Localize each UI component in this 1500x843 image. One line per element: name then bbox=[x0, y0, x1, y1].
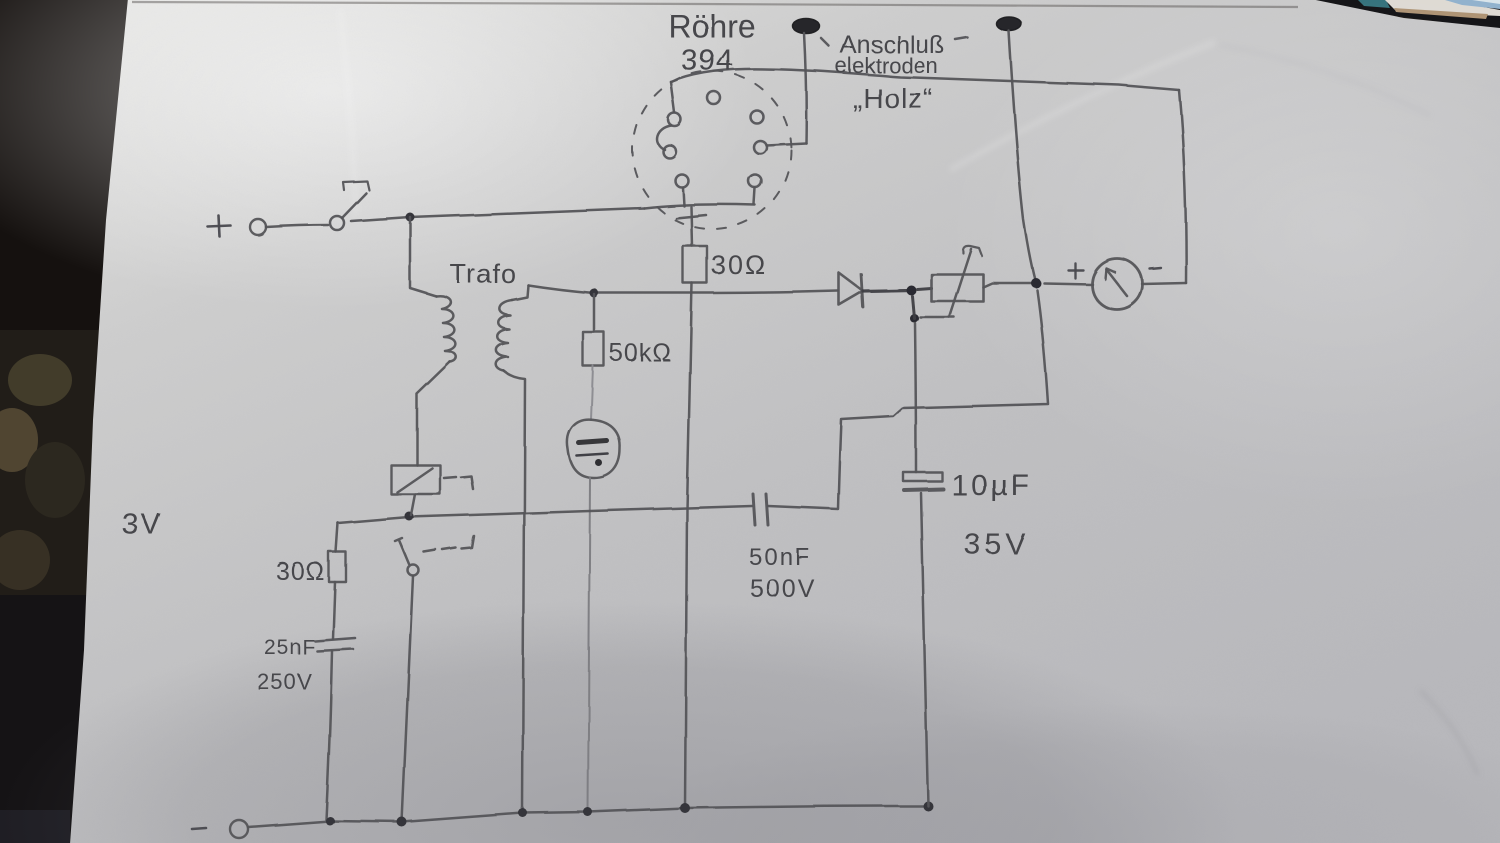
svg-text:50nF: 50nF bbox=[749, 544, 812, 571]
wire wiper tap to diagonal bbox=[920, 316, 954, 319]
resistor 30Ω left body bbox=[329, 552, 346, 582]
capacitor 50nF right plate bbox=[766, 494, 768, 525]
wire node B to 50k bbox=[593, 294, 596, 332]
wire right side down to meter bbox=[1179, 90, 1186, 283]
wire pin6 stub bbox=[683, 188, 684, 206]
tube V1 socket bus bbox=[644, 204, 755, 208]
wire 40µF to bottom bus bbox=[921, 493, 928, 806]
neon lamp envelope bbox=[567, 420, 620, 478]
wire resistor down long to bottom bus bbox=[685, 283, 692, 807]
black wedge top-right bbox=[1293, 0, 1500, 30]
wire neon to bottom bus (light) bbox=[588, 478, 590, 812]
tube V1 pin 1 bbox=[708, 92, 721, 105]
svg-text:50kΩ: 50kΩ bbox=[609, 339, 672, 367]
switch S2 contact circle bbox=[408, 565, 419, 576]
wire 50k to neon lamp (light) bbox=[591, 366, 593, 420]
node D junction dot bbox=[1031, 278, 1041, 288]
neon lamp electrode line bbox=[577, 454, 608, 456]
switch S2 dashed link bbox=[424, 536, 474, 552]
tube V1 pin 4 bbox=[669, 114, 682, 127]
svg-text:35V: 35V bbox=[964, 528, 1029, 561]
neon lamp dot bbox=[596, 460, 603, 467]
switch S2 arm bbox=[395, 538, 409, 564]
svg-text:30Ω: 30Ω bbox=[711, 250, 767, 280]
svg-text:500V: 500V bbox=[750, 575, 816, 603]
svg-text:394: 394 bbox=[681, 44, 734, 77]
paper top edge shadow line bbox=[132, 2, 1298, 7]
electrode terminal 1 dot bbox=[793, 19, 820, 34]
wire node D down and left to 50nF (loop) bbox=[768, 290, 1048, 509]
rheostat R3 arrow flag bbox=[963, 246, 982, 256]
rheostat R3 arrow diagonal bbox=[949, 249, 971, 317]
capacitor 25nF bottom plate bbox=[317, 649, 353, 651]
wire tube bus down to resistor bbox=[691, 207, 692, 246]
wire node E corner down to 30Ω left bbox=[336, 523, 338, 552]
tube V1 pin 5 bbox=[664, 146, 677, 159]
wire 50nF to left rail bbox=[338, 506, 752, 523]
wire main node B across bbox=[528, 285, 838, 293]
meter M1 needle bbox=[1106, 269, 1127, 296]
wire switch S2 to bottom bus bbox=[402, 576, 413, 822]
neon lamp electrode bar bbox=[579, 441, 607, 443]
node - terminal circle bbox=[230, 820, 248, 838]
svg-text:3V: 3V bbox=[122, 508, 163, 541]
diode D1 cathode bar bbox=[861, 274, 863, 307]
node E junction dot bbox=[405, 512, 414, 521]
wire node C to node C2 (dark) bbox=[912, 296, 914, 318]
transformer T1 secondary winding bbox=[496, 300, 512, 371]
node C2 junction dot bbox=[910, 314, 919, 323]
resistor 50kΩ body bbox=[583, 332, 604, 366]
meter M1 needle barbs bbox=[1105, 268, 1115, 279]
svg-text:elektroden: elektroden bbox=[835, 53, 938, 78]
capacitor 50nF left plate bbox=[753, 494, 755, 525]
wire switch to node A bbox=[351, 217, 410, 221]
wire meter to right frame bbox=[1142, 283, 1186, 284]
relay K1 diagonal bbox=[397, 468, 432, 492]
bottom bus junction dots bbox=[326, 801, 934, 827]
node A junction dot bbox=[406, 213, 415, 222]
camo fabric at left edge bbox=[0, 330, 110, 843]
teal fabric scrap bbox=[1358, 0, 1390, 8]
annotation dash after Anschluss bbox=[955, 37, 967, 39]
rheostat R3 body bbox=[931, 274, 983, 301]
wire 30Ω to 25nF bbox=[333, 582, 335, 639]
wire node D to meter bbox=[1044, 283, 1092, 284]
wire pin4 up to top frame bbox=[671, 82, 675, 113]
wire node C to rheostat bbox=[917, 288, 931, 289]
white object corner bbox=[1385, 0, 1500, 16]
tube V1 pin 2 bbox=[751, 111, 764, 124]
transformer T1 secondary bottom lead bbox=[504, 371, 525, 812]
transformer T1 primary winding bbox=[436, 296, 456, 362]
relay K1 coil body bbox=[391, 465, 440, 494]
switch S1 lever bbox=[342, 193, 366, 218]
wire pin4 to pin5 loop bbox=[658, 126, 672, 150]
wire diode to node C (dark) bbox=[863, 290, 911, 291]
resistor 30Ω anode body bbox=[683, 246, 707, 283]
wire relay to node E bbox=[411, 494, 415, 515]
wire stem to pin 3 bbox=[766, 143, 806, 145]
electrode terminal 2 dot bbox=[997, 17, 1022, 31]
wire bottom bus bbox=[248, 806, 928, 827]
tube V1 dashed envelope bbox=[633, 71, 791, 229]
meter M1 plus label bbox=[1068, 263, 1083, 278]
capacitor 40µF bottom plate bbox=[904, 489, 943, 490]
transformer T1 primary bottom lead bbox=[417, 362, 450, 465]
meter M1 body bbox=[1092, 259, 1143, 310]
switch S1 fixed contact bbox=[343, 181, 369, 190]
capacitor 40µF top plate box bbox=[903, 472, 942, 481]
diode D1 triangle bbox=[839, 273, 863, 305]
wire top frame across bbox=[671, 69, 1179, 90]
node + terminal circle bbox=[250, 219, 266, 235]
node + terminal: plus sign bbox=[208, 216, 231, 237]
node C junction dot bbox=[906, 285, 916, 295]
wire node A to tube bus bbox=[410, 208, 644, 217]
meter M1 minus label bbox=[1150, 268, 1161, 269]
node B junction dot bbox=[590, 289, 599, 298]
svg-text:10µF: 10µF bbox=[951, 469, 1032, 502]
svg-text:Trafo: Trafo bbox=[450, 259, 517, 289]
capacitor 25nF top plate bbox=[315, 638, 355, 641]
svg-text:„Holz“: „Holz“ bbox=[853, 83, 934, 114]
svg-text:Röhre: Röhre bbox=[668, 8, 755, 44]
svg-text:30Ω: 30Ω bbox=[276, 558, 326, 586]
svg-text:25nF: 25nF bbox=[264, 636, 316, 659]
annotation arrow to electrode 1 bbox=[821, 38, 829, 46]
transformer T1 primary top lead bbox=[410, 217, 436, 296]
tube V1 pin 3 bbox=[754, 141, 767, 154]
transformer T1 secondary top lead bbox=[512, 285, 528, 300]
wire electrode 2 stem down to node D bbox=[1009, 31, 1036, 282]
relay K1 dashed link bbox=[444, 476, 473, 489]
wire pin7 stub bbox=[754, 188, 755, 204]
tube V1 pin 7 bbox=[749, 175, 762, 188]
switch S1 pivot circle bbox=[330, 216, 344, 230]
node - terminal dash bbox=[192, 828, 206, 829]
wire node C2 down to 40µF bbox=[915, 323, 916, 472]
tube V1 pin 6 bbox=[676, 175, 689, 188]
svg-text:250V: 250V bbox=[257, 669, 312, 694]
paper crease highlight top right bbox=[950, 42, 1215, 170]
wire terminal to switch S1 bbox=[266, 225, 328, 227]
wire 25nF to bottom bus bbox=[326, 651, 332, 820]
wire rheostat to node D bbox=[983, 283, 1036, 287]
wire electrode 1 stem bbox=[804, 33, 806, 143]
